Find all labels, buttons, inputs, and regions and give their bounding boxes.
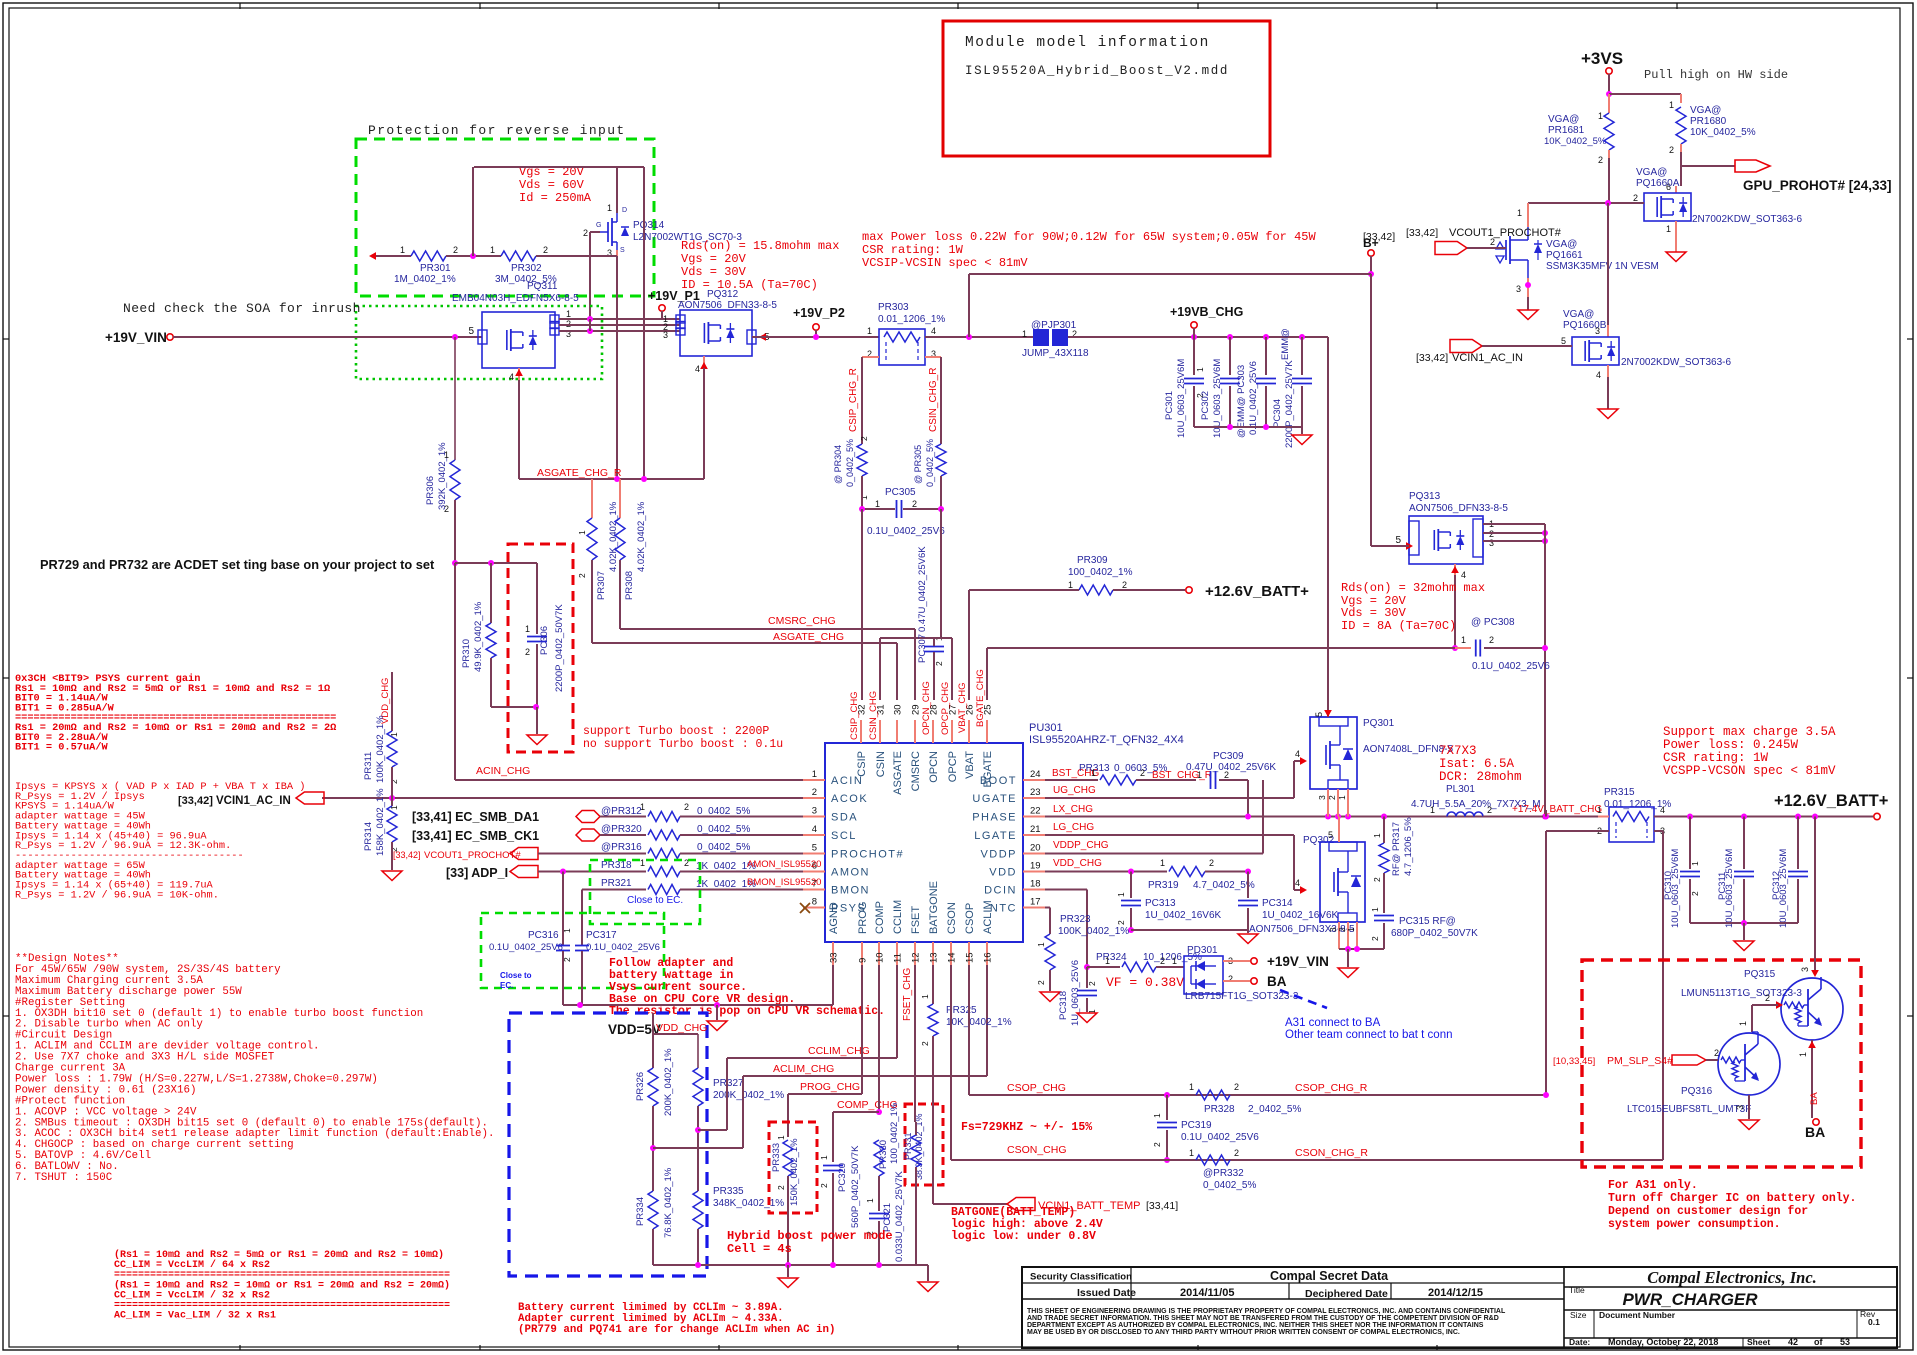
svg-text:+19V_VIN: +19V_VIN	[1267, 954, 1329, 969]
svg-text:42: 42	[1788, 1337, 1798, 1347]
green dotted box SOA	[356, 306, 602, 379]
wire AMON cap branch	[562, 872, 564, 946]
svg-text:1: 1	[640, 802, 645, 812]
wire VCIN1_AC_IN to PQ1660B	[1482, 345, 1572, 347]
capacitor PC301	[1193, 337, 1195, 375]
svg-text:Vds = 30V: Vds = 30V	[681, 265, 747, 279]
svg-text:1U_0402_16V6K: 1U_0402_16V6K	[1145, 910, 1222, 921]
svg-text:23: 23	[1030, 787, 1041, 798]
svg-text:Vds = 30V: Vds = 30V	[1341, 606, 1407, 620]
svg-text:PR327: PR327	[713, 1078, 744, 1089]
svg-text:2014/12/15: 2014/12/15	[1428, 1287, 1483, 1299]
wire PR315 pin2 to CSOP	[1546, 830, 1609, 832]
svg-text:VDD_CHG: VDD_CHG	[1053, 858, 1102, 869]
svg-text:0.033U_0402_25V7K: 0.033U_0402_25V7K	[894, 1170, 905, 1262]
title block table	[1022, 1267, 1897, 1348]
IC pin 33 AGND	[832, 942, 834, 965]
svg-text:EMM@: EMM@	[1280, 328, 1291, 360]
wire PQ314 source to resistor row	[616, 250, 618, 256]
callout A31 to BA	[1280, 990, 1327, 1008]
wire PQ311 pins right	[559, 318, 680, 320]
svg-text:PU301: PU301	[1029, 722, 1063, 734]
wire PQ1660A drain	[1680, 166, 1682, 186]
svg-text:1: 1	[1798, 1052, 1808, 1057]
svg-text:16: 16	[983, 952, 994, 963]
svg-text:LGATE: LGATE	[974, 830, 1017, 842]
wire PQ301 drain top	[1327, 680, 1329, 717]
svg-text:VDDP_CHG: VDDP_CHG	[1053, 840, 1109, 851]
svg-text:53: 53	[1840, 1337, 1850, 1347]
svg-text:PR334: PR334	[635, 1197, 646, 1226]
svg-text:1: 1	[1160, 858, 1165, 868]
wire PQ302 drain from phase	[1338, 817, 1340, 843]
svg-text:Hybrid boost power mode: Hybrid boost power mode	[727, 1229, 893, 1243]
svg-text:ACLIM_CHG: ACLIM_CHG	[773, 1063, 834, 1075]
IC pin 1 ACIN	[803, 779, 825, 781]
svg-text:7. TSHUT : 150C: 7. TSHUT : 150C	[15, 1172, 113, 1184]
svg-text:[33,42]: [33,42]	[1416, 352, 1448, 364]
svg-text:PR1680: PR1680	[1690, 116, 1727, 127]
svg-text:Fs=729KHZ ~ +/- 15%: Fs=729KHZ ~ +/- 15%	[961, 1121, 1092, 1134]
svg-text:OPCN_CHG: OPCN_CHG	[921, 681, 932, 735]
svg-text:2: 2	[1487, 805, 1492, 815]
svg-text:CMSRC_CHG: CMSRC_CHG	[768, 615, 836, 627]
svg-text:@ PC308: @ PC308	[1471, 617, 1515, 628]
svg-text:CSIN_CHG_R: CSIN_CHG_R	[928, 368, 939, 432]
svg-text:2: 2	[389, 779, 399, 784]
svg-text:SCL: SCL	[831, 830, 857, 842]
svg-text:0.1U_0402_25V6: 0.1U_0402_25V6	[489, 942, 563, 953]
svg-text:R_Psys = 1.2V / 96.9uA = 10K-o: R_Psys = 1.2V / 96.9uA = 10K-ohm.	[15, 889, 219, 901]
svg-text:Cell = 4s: Cell = 4s	[727, 1242, 792, 1256]
svg-text:PR333: PR333	[771, 1143, 782, 1172]
svg-text:[33,42]: [33,42]	[1406, 227, 1438, 239]
svg-text:0.1: 0.1	[1868, 1317, 1880, 1327]
svg-text:PQ314: PQ314	[633, 220, 665, 231]
wire PQ1661 drain from gate row	[1527, 203, 1529, 227]
svg-text:PR315: PR315	[1604, 787, 1635, 798]
svg-text:PR326: PR326	[635, 1072, 646, 1101]
IC pin 4 SCL	[803, 834, 825, 836]
capacitor PC311	[1743, 817, 1745, 870]
svg-text:VBAT: VBAT	[964, 751, 976, 779]
wire PQ312 gate pin4	[703, 356, 705, 368]
svg-text:21: 21	[1030, 824, 1041, 835]
svg-text:5: 5	[1561, 336, 1566, 346]
svg-text:3: 3	[1800, 967, 1810, 972]
svg-text:Title: Title	[1569, 1285, 1585, 1295]
svg-text:PR729 and PR732 are ACDET set: PR729 and PR732 are ACDET set ting base …	[40, 557, 435, 572]
svg-text:ACLIM: ACLIM	[982, 900, 994, 934]
svg-text:10U_0603_25V6M: 10U_0603_25V6M	[1670, 849, 1681, 928]
svg-text:Close to EC.: Close to EC.	[627, 895, 683, 906]
wire down to ASGATE_CHG_R row	[616, 256, 618, 479]
transistor PQ311	[482, 312, 555, 368]
svg-text:PC309: PC309	[1213, 751, 1244, 762]
wire PC306 ground	[491, 706, 537, 708]
svg-text:5: 5	[1328, 830, 1333, 840]
svg-text:Close to: Close to	[500, 971, 532, 980]
wire BMON cap branch	[581, 890, 583, 946]
svg-text:PQ1660B: PQ1660B	[1563, 320, 1607, 331]
svg-text:AND TRADE SECRET INFORMATION.: AND TRADE SECRET INFORMATION. THIS SHEET…	[1027, 1315, 1499, 1322]
wire PR302 to PQ314	[536, 255, 617, 257]
svg-text:2N7002KDW_SOT363-6: 2N7002KDW_SOT363-6	[1692, 214, 1802, 225]
svg-text:4: 4	[812, 824, 817, 835]
svg-text:G: G	[596, 222, 601, 229]
svg-text:1: 1	[1152, 1113, 1162, 1118]
svg-text:CCLIM: CCLIM	[892, 900, 904, 934]
svg-text:1: 1	[920, 994, 930, 999]
svg-text:MAY BE USED BY OR DISCLOSED TO: MAY BE USED BY OR DISCLOSED TO ANY THIRD…	[1027, 1329, 1460, 1336]
svg-text:2: 2	[453, 245, 458, 255]
svg-text:OPCP_CHG: OPCP_CHG	[940, 682, 951, 735]
wire OPCP to PC307	[951, 638, 953, 700]
svg-text:3: 3	[1317, 795, 1327, 800]
IC pin 30 ASGATE	[896, 720, 898, 743]
wire VBAT sense	[969, 589, 1079, 591]
svg-text:10U_0603_25V6M: 10U_0603_25V6M	[1724, 849, 1735, 928]
svg-text:4.02K_0402_1%: 4.02K_0402_1%	[636, 501, 647, 572]
svg-text:PM_SLP_S4#: PM_SLP_S4#	[1607, 1055, 1673, 1067]
svg-text:2: 2	[1116, 920, 1126, 925]
svg-text:2: 2	[684, 802, 689, 812]
svg-text:UG_CHG: UG_CHG	[1053, 785, 1096, 796]
svg-text:CSOP_CHG_R: CSOP_CHG_R	[1295, 1082, 1368, 1094]
svg-text:Compal Electronics, Inc.: Compal Electronics, Inc.	[1647, 1268, 1817, 1287]
svg-text:2: 2	[444, 504, 449, 514]
capacitor PC310	[1689, 817, 1691, 870]
svg-text:22: 22	[1030, 806, 1041, 817]
svg-text:VF = 0.38V: VF = 0.38V	[1106, 975, 1184, 990]
wire PQ311 source pin4	[518, 368, 520, 380]
wire CSIP to IC pin32	[861, 509, 863, 700]
svg-text:CSR rating: 1W: CSR rating: 1W	[1663, 751, 1769, 765]
svg-text:(PR779 and PQ741 are for chang: (PR779 and PQ741 are for change ACLIm wh…	[518, 1324, 835, 1336]
svg-text:3: 3	[1595, 326, 1600, 336]
svg-text:CSIP_CHG: CSIP_CHG	[849, 691, 860, 740]
wire PQ315 emitter to BA	[1811, 1040, 1813, 1118]
svg-text:PROG: PROG	[857, 902, 869, 934]
wire battery bus right	[1598, 816, 1609, 818]
ground PQ1660A	[1666, 252, 1686, 262]
svg-text:AMON: AMON	[831, 867, 870, 879]
svg-text:PC302: PC302	[1200, 391, 1211, 420]
svg-text:2: 2	[819, 1183, 829, 1188]
svg-text:Size: Size	[1570, 1310, 1587, 1320]
svg-text:4: 4	[1295, 749, 1300, 759]
svg-text:VGA@: VGA@	[1548, 114, 1579, 125]
svg-text:4.7_0402_5%: 4.7_0402_5%	[1193, 880, 1255, 891]
wire PC316 PC317 ground rail	[563, 1004, 833, 1006]
IC pin 22 PHASE	[1023, 816, 1045, 818]
svg-text:1: 1	[776, 1135, 786, 1140]
svg-text:2: 2	[577, 573, 587, 578]
svg-text:S: S	[620, 247, 625, 254]
svg-text:348K_0402_1%: 348K_0402_1%	[713, 1198, 784, 1209]
IC pin 25 BGATE	[986, 720, 988, 743]
svg-text:EMB04N03H_EDFN5X6-8-5: EMB04N03H_EDFN5X6-8-5	[452, 293, 579, 304]
svg-text:1: 1	[1022, 329, 1027, 339]
svg-text:9: 9	[858, 958, 869, 963]
svg-text:Compal Secret Data: Compal Secret Data	[1270, 1269, 1389, 1283]
wire PQ313 source rows	[1483, 523, 1545, 525]
svg-text:2: 2	[812, 787, 817, 798]
svg-text:Other team connect to bat t co: Other team connect to bat t conn	[1285, 1029, 1453, 1041]
svg-text:OPCN: OPCN	[928, 751, 940, 783]
svg-text:Need check the SOA for inrush: Need check the SOA for inrush	[123, 301, 361, 316]
svg-text:0_0402_5%: 0_0402_5%	[925, 439, 935, 487]
svg-text:1: 1	[1036, 942, 1046, 947]
IC pin 11 CCLIM	[896, 942, 898, 965]
svg-text:VCSIP-VCSIN spec < 81mV: VCSIP-VCSIN spec < 81mV	[862, 256, 1028, 270]
svg-text:3: 3	[663, 330, 668, 340]
svg-text:2: 2	[1224, 770, 1229, 780]
svg-text:4: 4	[1295, 878, 1300, 888]
svg-text:1: 1	[1197, 770, 1202, 780]
svg-text:CSR rating: 1W: CSR rating: 1W	[862, 243, 964, 257]
svg-text:FSET_CHG: FSET_CHG	[902, 967, 913, 1021]
no-connect X at PSYS	[800, 903, 810, 913]
svg-text:20: 20	[1030, 843, 1041, 854]
svg-text:of: of	[1814, 1337, 1823, 1347]
IC pin 19 VDD	[1023, 871, 1045, 873]
svg-text:[33,42]: [33,42]	[178, 795, 213, 807]
svg-text:Rds(on) = 15.8mohm max: Rds(on) = 15.8mohm max	[681, 239, 839, 253]
svg-text:+12.6V_BATT+: +12.6V_BATT+	[1774, 792, 1888, 810]
svg-text:100K_0402_1%: 100K_0402_1%	[375, 715, 386, 783]
red dashed box PR331	[905, 1104, 943, 1185]
svg-text:4: 4	[1596, 370, 1601, 380]
IC pin 28 OPCN	[932, 720, 934, 743]
svg-text:1: 1	[1337, 795, 1347, 800]
svg-text:VCIN1_AC_IN: VCIN1_AC_IN	[1452, 352, 1523, 364]
svg-text:PR318: PR318	[601, 860, 632, 871]
wire BGATE to PQ313	[986, 648, 988, 700]
svg-text:+3VS: +3VS	[1581, 49, 1623, 68]
IC pin 17 NTC	[1023, 907, 1045, 909]
svg-text:+19V_P2: +19V_P2	[793, 306, 845, 320]
green dashed box protection	[356, 139, 654, 296]
resistor PR308	[619, 479, 621, 518]
svg-text:2: 2	[1160, 956, 1165, 966]
svg-text:13: 13	[929, 952, 940, 963]
svg-text:LTC015EUBFS8TL_UMT3F: LTC015EUBFS8TL_UMT3F	[1627, 1104, 1751, 1115]
svg-text:PR310: PR310	[461, 639, 472, 668]
wire B+ to PQ313 drain	[1371, 545, 1409, 547]
svg-text:0_0402_5%: 0_0402_5%	[845, 439, 855, 487]
svg-text:PR307: PR307	[596, 571, 607, 600]
svg-text:Vgs = 20V: Vgs = 20V	[681, 252, 747, 266]
svg-text:Security Classification: Security Classification	[1030, 1272, 1132, 1283]
ground PC318	[1077, 1013, 1097, 1023]
wire cap bank ground rail	[1194, 426, 1302, 428]
svg-text:BIT1 = 0.57uA/W: BIT1 = 0.57uA/W	[15, 742, 109, 754]
wire divider ground rail	[653, 1264, 928, 1266]
svg-text:PROG_CHG: PROG_CHG	[800, 1081, 860, 1093]
svg-text:1: 1	[1116, 892, 1126, 897]
capacitor PC303	[1265, 337, 1267, 375]
IC pin 26 VBAT	[968, 720, 970, 743]
wire BATGONE to BATT_TEMP	[932, 1036, 934, 1204]
IC pin 6 AMON	[803, 871, 825, 873]
svg-text:200K_0402_1%: 200K_0402_1%	[713, 1090, 784, 1101]
svg-text:PR301: PR301	[420, 263, 451, 274]
svg-text:Depend on customer design for: Depend on customer design for	[1608, 1205, 1808, 1218]
svg-text:CSIP_CHG_R: CSIP_CHG_R	[848, 368, 859, 432]
svg-text:VBAT_CHG: VBAT_CHG	[957, 682, 968, 733]
svg-text:1U_0402_16V6K: 1U_0402_16V6K	[1262, 910, 1339, 921]
wire row to PC306	[455, 562, 537, 564]
resistor PR307	[591, 479, 593, 518]
svg-text:PR306: PR306	[425, 476, 436, 505]
svg-text:1: 1	[875, 499, 880, 509]
svg-text:Date:: Date:	[1569, 1337, 1590, 1347]
wire PQ302 source to gnd rail	[1338, 922, 1340, 949]
svg-text:2: 2	[543, 245, 548, 255]
svg-text:FSET: FSET	[910, 906, 922, 934]
svg-text:560P_0402_50V7K: 560P_0402_50V7K	[850, 1145, 861, 1228]
svg-text:PQ313: PQ313	[1409, 491, 1441, 502]
svg-text:158K_0402_1%: 158K_0402_1%	[375, 788, 386, 856]
svg-text:PC306: PC306	[539, 626, 550, 655]
svg-text:1: 1	[1346, 927, 1356, 932]
ground cap bank	[1292, 435, 1312, 445]
svg-text:12: 12	[911, 952, 922, 963]
svg-text:1: 1	[1105, 956, 1110, 966]
resistor PR311	[391, 672, 393, 731]
svg-text:PQ1660A: PQ1660A	[1636, 178, 1680, 189]
svg-text:1: 1	[812, 769, 817, 780]
wire GPU_PROHOT#	[1681, 165, 1735, 167]
svg-text:4: 4	[695, 364, 700, 374]
svg-text:BA: BA	[1267, 974, 1287, 989]
wire VDD_CHG into divider	[652, 1013, 654, 1034]
svg-text:1: 1	[444, 450, 449, 460]
svg-text:PR321: PR321	[601, 878, 632, 889]
flag VCIN1_BATT_TEMP	[933, 1203, 1007, 1205]
IC pin 18 DCIN	[1023, 889, 1045, 891]
svg-text:CSOP: CSOP	[964, 903, 976, 934]
svg-text:4.7_1206_5%: 4.7_1206_5%	[1403, 817, 1414, 876]
svg-text:CSON_CHG_R: CSON_CHG_R	[1295, 1147, 1368, 1159]
svg-text:PR303: PR303	[878, 302, 909, 313]
wire PQ301 source pins to phase	[1327, 789, 1329, 817]
svg-text:2: 2	[525, 647, 530, 657]
svg-text:Turn off Charger IC on battery: Turn off Charger IC on battery only.	[1608, 1192, 1856, 1205]
svg-text:5: 5	[468, 326, 474, 337]
svg-text:VCOUT1_PROCHOT#: VCOUT1_PROCHOT#	[1449, 227, 1562, 239]
svg-text:1: 1	[566, 309, 571, 319]
wire bus PJP301 to caps	[1068, 336, 1328, 338]
svg-text:JUMP_43X118: JUMP_43X118	[1022, 348, 1089, 359]
wire ASGATE_CHG to IC	[591, 560, 593, 643]
svg-text:VDD: VDD	[989, 867, 1017, 879]
IC pin 12 FSET	[914, 942, 916, 965]
svg-text:PR314: PR314	[363, 822, 374, 851]
svg-text:3: 3	[812, 806, 817, 817]
IC pin 13 BATGONE	[932, 942, 934, 965]
svg-text:2: 2	[1087, 981, 1097, 986]
svg-text:10U_0603_25V6M: 10U_0603_25V6M	[1176, 359, 1187, 438]
svg-text:2: 2	[1669, 145, 1674, 155]
svg-text:UGATE: UGATE	[972, 793, 1017, 805]
svg-text:2: 2	[1690, 891, 1700, 896]
svg-text:BA: BA	[1805, 1124, 1825, 1140]
wire VCOUT1_PROCHOT# to PQ1661 gate	[1467, 247, 1506, 249]
svg-text:VCIN1_AC_IN: VCIN1_AC_IN	[216, 795, 291, 807]
svg-text:2: 2	[1234, 1148, 1239, 1158]
svg-text:1: 1	[1461, 635, 1466, 645]
ground PQ316	[1739, 1120, 1759, 1130]
svg-text:PWR_CHARGER: PWR_CHARGER	[1622, 1290, 1758, 1309]
IC pin 15 CSOP	[968, 942, 970, 965]
svg-text:PQ315: PQ315	[1744, 969, 1776, 980]
svg-text:Issued Date: Issued Date	[1077, 1287, 1136, 1299]
ground PC316 PC317	[707, 1021, 727, 1031]
IC pin 7 BMON	[803, 889, 825, 891]
wire B+ down to PQ313	[1370, 256, 1372, 274]
svg-text:ACOK: ACOK	[831, 793, 868, 805]
svg-text:2: 2	[1228, 974, 1233, 984]
wire ACOK row	[322, 797, 803, 799]
svg-text:1: 1	[865, 1198, 875, 1203]
svg-text:CCLIM_CHG: CCLIM_CHG	[808, 1045, 870, 1057]
svg-text:76.8K_0402_1%: 76.8K_0402_1%	[663, 1167, 674, 1238]
svg-text:max Power loss 0.22W for 90W;0: max Power loss 0.22W for 90W;0.12W for 6…	[862, 230, 1316, 244]
svg-text:@PR320: @PR320	[601, 824, 642, 835]
svg-text:BMON_ISL95520: BMON_ISL95520	[747, 877, 821, 888]
svg-text:1: 1	[562, 928, 572, 933]
svg-text:PC317: PC317	[586, 930, 617, 941]
capacitor PC313	[1130, 872, 1132, 899]
svg-text:10U_0603_25V6M: 10U_0603_25V6M	[1778, 849, 1789, 928]
svg-text:BGATE_CHG: BGATE_CHG	[975, 669, 986, 727]
svg-text:2: 2	[1765, 993, 1770, 1003]
svg-text:+12.6V_BATT+: +12.6V_BATT+	[1205, 583, 1309, 600]
svg-text:PHASE: PHASE	[972, 812, 1017, 824]
svg-text:BMON: BMON	[831, 885, 870, 897]
svg-text:THIS SHEET OF ENGINEERING DRAW: THIS SHEET OF ENGINEERING DRAWING IS THE…	[1027, 1308, 1506, 1315]
IC pin 8 PSYS	[803, 907, 825, 909]
svg-text:AC_LIM = Vac_LIM / 32 x Rs1: AC_LIM = Vac_LIM / 32 x Rs1	[114, 1310, 276, 1322]
svg-text:1: 1	[1597, 805, 1602, 815]
svg-text:100_0402_1%: 100_0402_1%	[1068, 567, 1133, 578]
svg-text:5: 5	[1395, 535, 1401, 546]
svg-text:1: 1	[1091, 768, 1096, 778]
wire reverse sense row	[369, 252, 376, 260]
svg-text:DCIN: DCIN	[984, 885, 1017, 897]
ground PQ302	[1338, 968, 1358, 978]
svg-text:1: 1	[607, 203, 612, 213]
svg-text:3: 3	[1489, 538, 1494, 548]
svg-text:+19VB_CHG: +19VB_CHG	[1170, 305, 1243, 319]
svg-text:AGND: AGND	[828, 902, 840, 934]
svg-text:2: 2	[1370, 936, 1380, 941]
svg-text:VGA@: VGA@	[1546, 239, 1577, 250]
capacitor PC312	[1797, 817, 1799, 870]
svg-text:2: 2	[920, 1041, 930, 1046]
svg-text:Sheet: Sheet	[1747, 1337, 1770, 1347]
svg-text:VDDP: VDDP	[980, 849, 1017, 861]
svg-text:30: 30	[893, 704, 904, 715]
svg-text:2014/11/05: 2014/11/05	[1180, 1287, 1234, 1299]
ground PQ1661	[1518, 310, 1538, 320]
svg-text:4: 4	[1660, 805, 1665, 815]
IC pin 3 SDA	[803, 816, 825, 818]
svg-text:PR1681: PR1681	[1548, 125, 1585, 136]
flag GPU_PROHOT#	[1735, 160, 1770, 172]
